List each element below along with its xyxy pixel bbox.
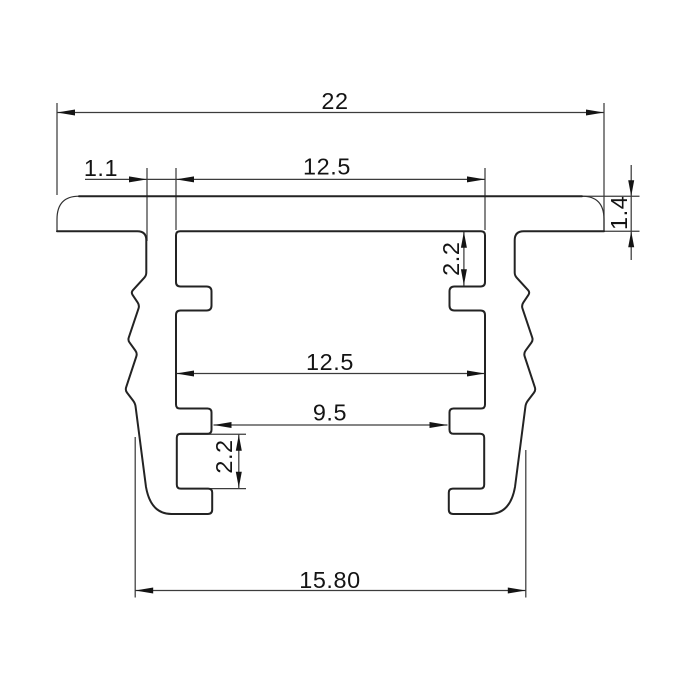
svg-text:12.5: 12.5 — [303, 154, 351, 180]
svg-text:2.2: 2.2 — [211, 439, 237, 473]
svg-text:9.5: 9.5 — [313, 400, 347, 426]
svg-text:2.2: 2.2 — [438, 242, 464, 276]
svg-text:15.80: 15.80 — [299, 567, 361, 593]
svg-text:1.4: 1.4 — [606, 196, 632, 230]
svg-text:12.5: 12.5 — [306, 349, 354, 375]
svg-text:22: 22 — [321, 88, 348, 114]
svg-text:1.1: 1.1 — [84, 155, 118, 181]
